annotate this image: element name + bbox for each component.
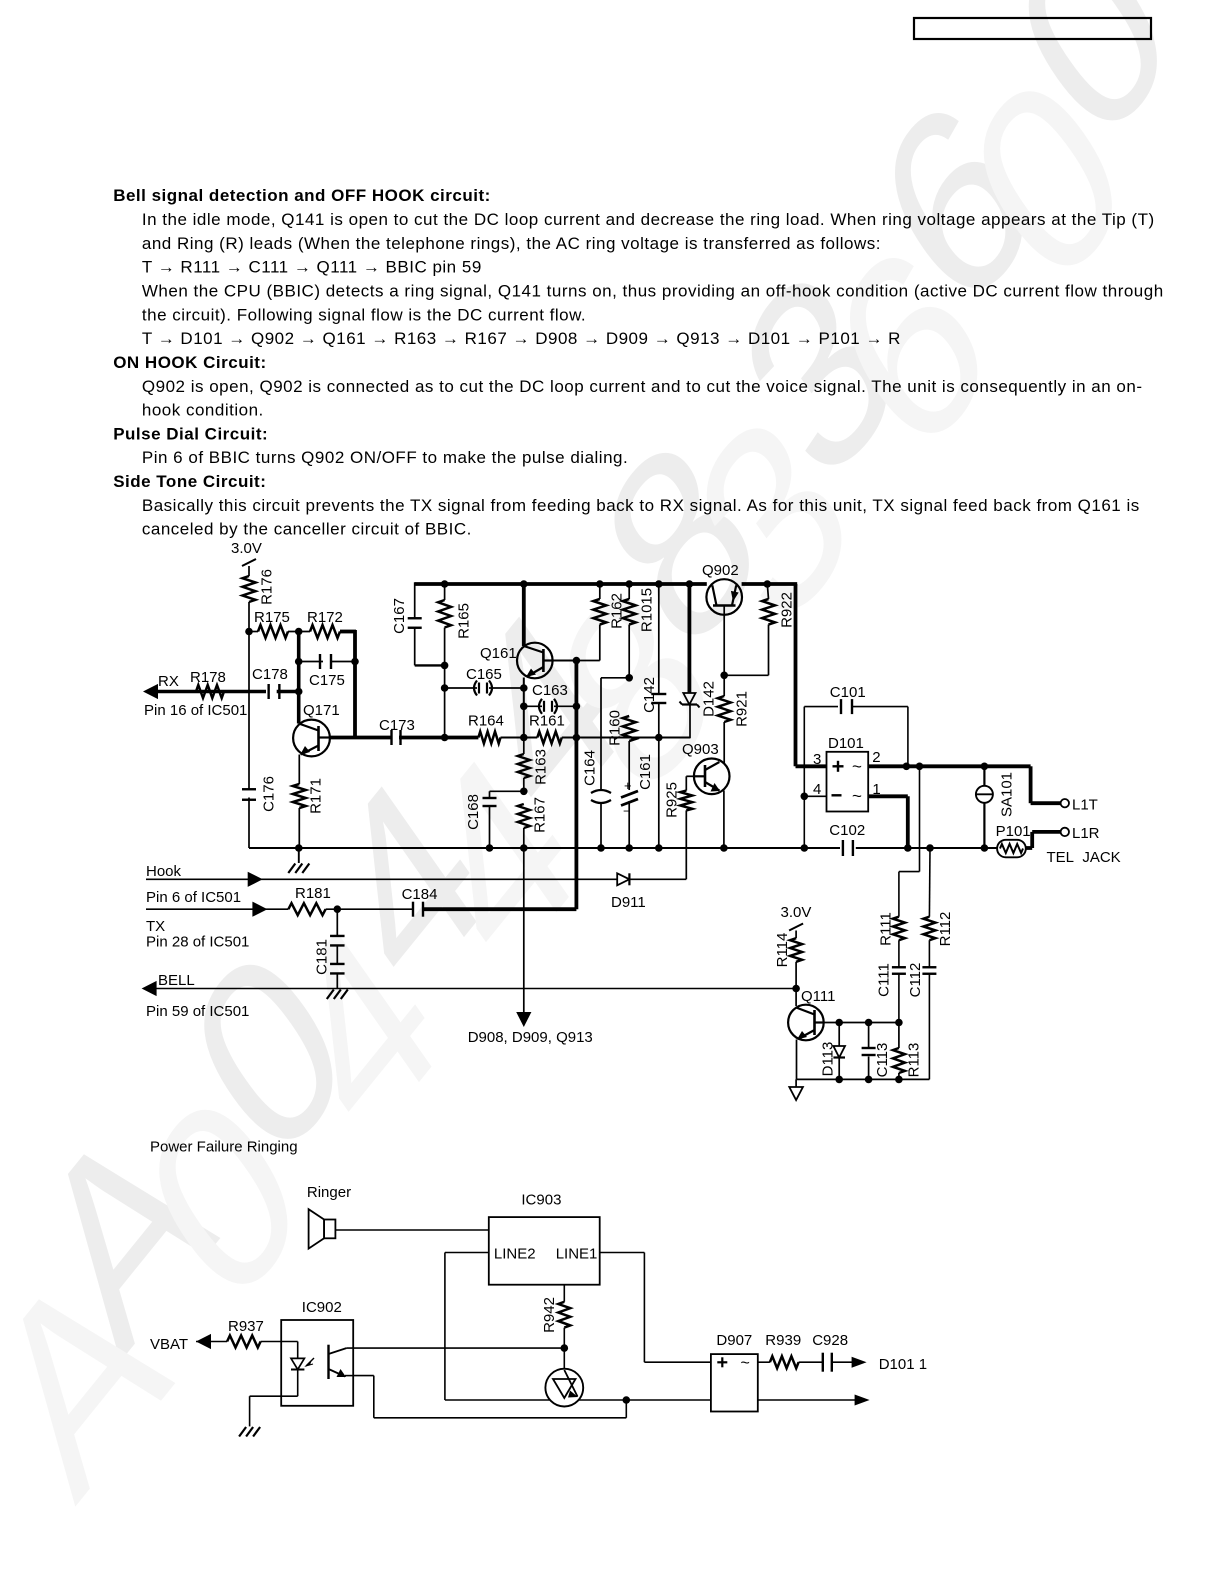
label BELL <box>158 972 195 989</box>
svg-text:4: 4 <box>813 781 821 798</box>
capacitor C163 <box>520 682 580 714</box>
svg-text:TEL JACK: TEL JACK <box>1047 849 1121 866</box>
varistor P101 <box>996 823 1031 857</box>
svg-text:the circuit). Following signal: the circuit). Following signal flow is t… <box>142 305 586 324</box>
svg-text:Pulse Dial Circuit:: Pulse Dial Circuit: <box>113 424 268 443</box>
resistor R172 <box>307 609 356 638</box>
resistor R925 <box>663 776 692 879</box>
svg-text:R921: R921 <box>733 691 750 727</box>
power 3.0V supply (right) <box>781 904 812 938</box>
rectifier D101 <box>827 735 869 812</box>
label pin 1 <box>872 781 880 798</box>
diode D113 <box>819 1023 845 1080</box>
capacitor C142 <box>641 580 666 737</box>
svg-text:C167: C167 <box>391 598 408 634</box>
node run/C142 junction <box>655 734 663 742</box>
resistor R111 <box>877 912 905 967</box>
phototransistor in IC902 <box>329 1345 354 1379</box>
svg-text:Pin 16 of IC501: Pin 16 of IC501 <box>144 702 247 719</box>
label Power Failure Ringing <box>150 1139 298 1156</box>
wire pin1 run <box>868 796 908 848</box>
svg-text:Q161: Q161 <box>480 645 517 662</box>
node rail/D113 <box>835 1019 843 1027</box>
wire D908 drop <box>523 848 525 1012</box>
resistor R1015 <box>623 580 656 678</box>
wire triac out <box>579 1399 626 1401</box>
svg-text:R112: R112 <box>937 912 954 947</box>
node R165/C165 junction <box>441 684 449 692</box>
wire RX line <box>158 690 266 694</box>
svg-text:Ringer: Ringer <box>307 1184 351 1201</box>
ground arrow under Q111 <box>789 1079 803 1100</box>
wire C142 ground drop <box>655 738 663 852</box>
svg-text:R162: R162 <box>608 593 625 629</box>
svg-text:D113: D113 <box>819 1042 836 1077</box>
wire return loop <box>353 1376 626 1418</box>
terminal L1T <box>1061 797 1098 814</box>
svg-text:R165: R165 <box>455 603 472 639</box>
capacitor C178 <box>252 666 299 699</box>
resistor R163 <box>518 738 550 792</box>
svg-text:ON HOOK Circuit:: ON HOOK Circuit: <box>113 353 266 372</box>
resistor R167 <box>518 797 549 848</box>
resistor R161 <box>529 713 565 744</box>
svg-text:D908, D909, Q913: D908, D909, Q913 <box>468 1029 593 1046</box>
svg-text:3.0V: 3.0V <box>231 540 262 557</box>
capacitor C113 <box>862 1023 891 1080</box>
triac Q901 <box>545 1369 583 1407</box>
capacitor C167 <box>391 582 445 665</box>
capacitor C101 <box>804 684 908 766</box>
label Pin 28 of IC501 <box>146 934 249 951</box>
ground IC902 <box>239 1427 260 1437</box>
wire C101 leg down <box>803 796 805 848</box>
node pin2/C101 <box>903 763 911 771</box>
node R171 bottom <box>295 844 303 852</box>
wire Q161 collector riser <box>522 584 526 646</box>
rectifier D907 <box>711 1332 758 1412</box>
node R942/opto junction <box>561 1344 569 1352</box>
node C102 left <box>801 844 809 852</box>
resistor R165 <box>438 580 472 737</box>
svg-text:D101 1: D101 1 <box>879 1356 927 1373</box>
node base junction <box>295 628 303 636</box>
svg-text:R164: R164 <box>468 713 504 730</box>
svg-text:IC902: IC902 <box>302 1299 342 1316</box>
svg-text:~: ~ <box>741 1355 750 1372</box>
svg-text:LINE1: LINE1 <box>556 1246 598 1263</box>
resistor R181 <box>288 885 413 915</box>
svg-text:C173: C173 <box>379 717 415 734</box>
svg-text:3: 3 <box>813 751 821 768</box>
arrow TX <box>252 902 267 917</box>
wire run mid <box>501 737 538 739</box>
optocoupler IC902 <box>281 1299 353 1406</box>
arrow BELL <box>142 981 157 996</box>
svg-text:R181: R181 <box>295 885 331 902</box>
node rail/R113 <box>895 1019 903 1027</box>
wire LED cathode to ground <box>250 1396 298 1426</box>
node pin1 bottom <box>904 844 912 852</box>
wire pin4 link <box>804 766 826 796</box>
node R163/R167 junction <box>520 788 528 796</box>
resistor R112 <box>923 912 953 968</box>
node Q902 base/R922 <box>720 672 728 680</box>
capacitor C102 <box>829 822 865 856</box>
svg-text:BELL: BELL <box>158 972 195 989</box>
arrow to D908 <box>516 1012 531 1027</box>
svg-text:T → D101 → Q902 → Q161 → R163: T → D101 → Q902 → Q161 → R163 → R167 → D… <box>142 329 901 348</box>
svg-text:R113: R113 <box>905 1043 922 1078</box>
wire top bus left <box>415 582 707 586</box>
svg-text:canceled by the canceller circ: canceled by the canceller circuit of BBI… <box>142 520 472 539</box>
arrow Hook <box>248 872 263 887</box>
node erail/D113 <box>835 1076 843 1084</box>
label pin 2 <box>872 749 880 766</box>
capacitor C112 <box>907 963 937 1080</box>
svg-text:and Ring (R) leads (When the t: and Ring (R) leads (When the telephone r… <box>142 234 881 253</box>
svg-text:C928: C928 <box>812 1332 848 1349</box>
node run/riser junction <box>573 734 581 742</box>
svg-text:D101: D101 <box>828 735 864 752</box>
wire top bus right <box>742 582 798 586</box>
svg-text:R937: R937 <box>228 1318 264 1335</box>
diode D911 <box>611 873 686 911</box>
svg-text:Q171: Q171 <box>303 702 340 719</box>
wire Q111 emitter rail <box>797 1078 930 1080</box>
capacitor C165 <box>445 666 528 696</box>
wire R112 branch <box>926 844 934 917</box>
transistor Q902 <box>702 562 742 675</box>
svg-text:C168: C168 <box>465 794 482 830</box>
wire D907 lower out <box>758 1399 856 1401</box>
svg-text:In the idle mode, Q141 is open: In the idle mode, Q141 is open to cut th… <box>142 210 1155 229</box>
node rail/C113 <box>865 1019 873 1027</box>
wire left rail <box>248 632 250 789</box>
opto arrows <box>306 1358 314 1366</box>
svg-text:IC903: IC903 <box>521 1192 561 1209</box>
transistor Q111 <box>788 988 835 1079</box>
node erail/C113 <box>865 1076 873 1084</box>
svg-text:Pin 6 of BBIC turns Q902 ON/OF: Pin 6 of BBIC turns Q902 ON/OFF to make … <box>142 448 628 467</box>
svg-text:RX: RX <box>158 673 179 690</box>
speaker Ringer <box>309 1209 336 1248</box>
svg-text:R175: R175 <box>254 609 290 626</box>
svg-text:Hook: Hook <box>146 863 182 880</box>
resistor R175 <box>249 609 310 638</box>
wire collector run <box>330 736 391 740</box>
svg-text:C163: C163 <box>532 682 568 699</box>
capacitor C184 <box>402 886 577 917</box>
svg-text:T → R111 → C111 → Q111 → BBIC: T → R111 → C111 → Q111 → BBIC pin 59 <box>142 258 482 277</box>
wire ground bus <box>249 847 840 849</box>
wire TX line <box>146 908 288 910</box>
svg-text:C184: C184 <box>402 886 438 903</box>
resistor R939 <box>758 1332 823 1368</box>
svg-text:+: + <box>624 778 632 793</box>
wire run to riser <box>562 737 577 739</box>
node C175 left <box>295 658 303 666</box>
svg-text:Pin 6 of IC501: Pin 6 of IC501 <box>146 889 241 906</box>
svg-text:R176: R176 <box>258 569 275 605</box>
label TX <box>146 918 165 935</box>
svg-text:C164: C164 <box>581 750 598 786</box>
node pin4 <box>801 793 809 801</box>
wire L1R lead <box>1026 832 1061 848</box>
svg-text:R171: R171 <box>307 778 324 814</box>
label pin 4 <box>813 781 821 798</box>
wire TX riser <box>575 661 579 910</box>
svg-text:SA101: SA101 <box>998 772 1015 817</box>
resistor R921 <box>718 675 751 764</box>
transistor Q903 <box>682 741 730 848</box>
svg-text:R114: R114 <box>774 933 791 968</box>
svg-text:~: ~ <box>852 787 862 806</box>
resistor R937 <box>227 1318 298 1348</box>
svg-text:When the CPU (BBIC) detects a: When the CPU (BBIC) detects a ring signa… <box>142 282 1164 301</box>
svg-text:C111: C111 <box>875 963 892 997</box>
power 3.0V supply (top left) <box>231 540 262 576</box>
svg-text:D142: D142 <box>700 681 717 717</box>
svg-text:C165: C165 <box>466 666 502 683</box>
wire ground bus right <box>856 847 997 849</box>
svg-text:Q902 is open, Q902 is connecte: Q902 is open, Q902 is connected as to cu… <box>142 377 1143 396</box>
capacitor C173 <box>379 717 478 745</box>
svg-text:Pin 28 of IC501: Pin 28 of IC501 <box>146 934 249 951</box>
svg-text:Q903: Q903 <box>682 741 719 758</box>
resistor R114 <box>774 933 802 1006</box>
svg-text:D907: D907 <box>716 1332 752 1349</box>
capacitor C164 <box>581 678 629 852</box>
svg-text:R172: R172 <box>307 609 343 626</box>
resistor R162 <box>576 580 625 660</box>
wire BELL line <box>144 988 796 990</box>
svg-text:2: 2 <box>872 749 880 766</box>
svg-text:Side Tone Circuit:: Side Tone Circuit: <box>113 472 266 491</box>
svg-text:~: ~ <box>852 757 862 776</box>
svg-text:R925: R925 <box>663 782 680 818</box>
label Pin 59 of IC501 <box>146 1003 249 1020</box>
wire pin2 run <box>868 764 1030 768</box>
wire L1T lead <box>1031 766 1061 803</box>
node C175 right <box>351 658 359 666</box>
svg-text:VBAT: VBAT <box>150 1336 188 1353</box>
resistor R178 <box>190 669 226 698</box>
node run/R165 junction <box>441 734 449 742</box>
capacitor C181 <box>313 909 348 999</box>
resistor R942 <box>541 1285 571 1369</box>
svg-text:R178: R178 <box>190 669 226 686</box>
svg-text:TX: TX <box>146 918 165 935</box>
svg-text:Q111: Q111 <box>801 988 835 1005</box>
wire Q171 base riser <box>297 632 301 724</box>
label Pin 16 of IC501 <box>144 702 247 719</box>
wire Q111 collector rail <box>824 1022 899 1024</box>
svg-text:A0448360: A0448360 <box>0 0 1220 1549</box>
wire bus corner drop <box>796 584 827 766</box>
wire speaker to IC903 <box>335 1229 488 1231</box>
node R1015/R160 junction <box>625 674 633 682</box>
svg-text:C176: C176 <box>260 776 277 812</box>
svg-text:C102: C102 <box>829 822 865 839</box>
svg-text:D911: D911 <box>611 894 646 911</box>
svg-text:L1R: L1R <box>1072 825 1100 842</box>
transistor Q161 <box>480 643 576 738</box>
node pin2/SA101 <box>981 763 989 771</box>
node BELL/R114 junction <box>792 985 800 993</box>
svg-text:R942: R942 <box>541 1297 558 1333</box>
wire opto collector line <box>346 1347 564 1349</box>
wire Hook line <box>146 878 617 880</box>
svg-text:C175: C175 <box>309 672 345 689</box>
svg-text:Pin 59 of IC501: Pin 59 of IC501 <box>146 1003 249 1020</box>
resistor R113 <box>893 1023 922 1080</box>
header empty box <box>914 18 1151 39</box>
wire run right <box>576 737 690 739</box>
node C178/base junction <box>295 688 303 696</box>
node pin2/R111 <box>916 763 924 771</box>
label VBAT <box>150 1336 188 1353</box>
svg-text:C142: C142 <box>641 677 658 713</box>
svg-text:R161: R161 <box>529 713 565 730</box>
resistor R171 <box>293 755 325 849</box>
node R167 bottom <box>520 844 528 852</box>
ground under R171 <box>288 848 309 873</box>
arrow to D101 pin1 <box>852 1356 927 1373</box>
label Ringer <box>307 1184 351 1201</box>
svg-text:C181: C181 <box>313 939 330 975</box>
node R176/R175 junction <box>245 628 253 636</box>
node run/Q161 junction <box>520 734 528 742</box>
node R165/C167 junction <box>441 662 449 670</box>
wire R111 branch <box>899 766 920 916</box>
svg-text:3.0V: 3.0V <box>781 904 812 921</box>
capacitor C161 <box>621 754 654 852</box>
IC IC903 <box>489 1192 600 1285</box>
svg-text:LINE2: LINE2 <box>494 1246 536 1263</box>
transistor Q171 <box>293 702 340 756</box>
wire LINE1 loop <box>600 1253 711 1363</box>
svg-text:R939: R939 <box>765 1332 801 1349</box>
svg-text:R1015: R1015 <box>638 588 655 632</box>
node Q161 right junction <box>573 657 581 665</box>
svg-text:C101: C101 <box>830 684 866 701</box>
wire LINE2 loop <box>445 1253 550 1401</box>
resistor R164 <box>468 713 504 744</box>
capacitor C928 <box>812 1332 852 1372</box>
svg-text:R163: R163 <box>532 749 549 785</box>
wire R172 to collector node <box>353 630 357 739</box>
resistor R922 <box>724 580 795 675</box>
capacitor C175 <box>299 654 355 689</box>
RX arrow <box>143 673 179 699</box>
node TX/C181 junction <box>334 905 342 913</box>
wire to D907 lower <box>626 1399 711 1401</box>
svg-text:Bell signal detection and OFF: Bell signal detection and OFF HOOK circu… <box>113 186 491 205</box>
label D908 D909 Q913 <box>468 1029 593 1046</box>
capacitor C168 <box>465 791 524 852</box>
svg-text:L1T: L1T <box>1072 797 1098 814</box>
resistor R160 <box>606 710 635 790</box>
node bus/Q161 junction <box>520 580 528 588</box>
label TEL JACK <box>1047 849 1121 866</box>
svg-text:R922: R922 <box>778 592 795 628</box>
node SA101 bottom <box>981 844 989 852</box>
paragraph text <box>113 186 1163 539</box>
svg-text:Basically this circuit prevent: Basically this circuit prevents the TX s… <box>142 496 1140 515</box>
label Hook <box>146 863 182 880</box>
node Q903 emitter bottom <box>720 844 728 852</box>
arrow VBAT <box>196 1334 227 1349</box>
surge absorber SA101 <box>976 766 1015 848</box>
svg-text:C178: C178 <box>252 666 288 683</box>
svg-text:Power Failure Ringing: Power Failure Ringing <box>150 1139 298 1156</box>
svg-text:C113: C113 <box>874 1043 891 1078</box>
LED in IC902 <box>291 1342 304 1397</box>
svg-text:R167: R167 <box>531 797 548 833</box>
svg-text:C112: C112 <box>907 963 924 998</box>
label pin 3 <box>813 751 821 768</box>
svg-text:R111: R111 <box>877 912 894 946</box>
resistor R176 <box>243 569 276 631</box>
node triac/D907 junction <box>623 1396 631 1404</box>
svg-text:Q902: Q902 <box>702 562 739 579</box>
node erail/R113 <box>895 1076 903 1084</box>
svg-text:P101: P101 <box>996 823 1031 840</box>
svg-text:C161: C161 <box>637 754 654 790</box>
capacitor C111 <box>875 963 906 1022</box>
label Pin 6 of IC501 <box>146 889 241 906</box>
capacitor C176 <box>242 776 277 848</box>
svg-text:R160: R160 <box>606 710 623 746</box>
terminal L1R <box>1061 825 1100 842</box>
svg-text:hook condition.: hook condition. <box>142 401 264 420</box>
arrow lower out <box>855 1395 870 1406</box>
diode D142 zener <box>680 580 718 717</box>
wire D142 elbow <box>689 705 691 738</box>
